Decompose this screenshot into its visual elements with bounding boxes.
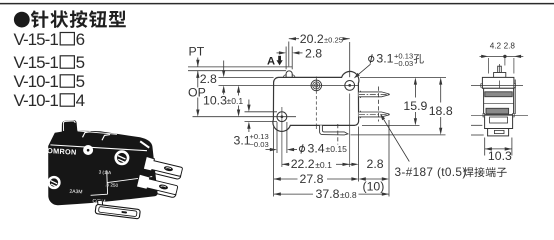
svg-text:±0.15: ±0.15: [326, 144, 348, 154]
dimension 27.8: [274, 172, 359, 186]
section arrow A: [267, 56, 283, 68]
PT dimension: [189, 45, 205, 117]
svg-text:PT: PT: [189, 45, 205, 59]
svg-text:2.8: 2.8: [504, 41, 516, 50]
dimension 15.9: [403, 77, 427, 125]
illustration top edge highlight: [50, 145, 147, 151]
svg-text:3.1: 3.1: [376, 51, 393, 65]
side view terminal bar 1: [485, 92, 512, 97]
dimension 10.3±0.1 (hole line spacing): [203, 85, 243, 116]
dimension 18.8: [429, 77, 453, 134]
svg-text:20.2: 20.2: [300, 32, 324, 46]
svg-text:.5 250: .5 250: [105, 182, 118, 188]
svg-text:−0.03: −0.03: [394, 59, 413, 68]
top-right mounting hole (phi 3.1 hole): [345, 42, 355, 167]
svg-text:6: 6: [76, 30, 85, 49]
illustration pin button highlight: [63, 121, 75, 131]
operating position line (pin tip): [188, 70, 286, 72]
bottom-left mounting hole: [277, 107, 287, 167]
dimension 2.8 (top edge to hole line): [200, 61, 226, 95]
svg-text:−0.03: −0.03: [250, 140, 269, 149]
illustration blade terminal 2: [136, 174, 179, 198]
illustration top back edge highlight: [78, 131, 117, 134]
common terminal (bottom): [320, 125, 348, 134]
svg-text:3.1: 3.1: [234, 133, 251, 147]
svg-text:4.2: 4.2: [490, 41, 502, 50]
phi 3.1 hole label + leader: [354, 51, 424, 78]
svg-text:4: 4: [76, 91, 85, 110]
svg-text:2.8: 2.8: [200, 72, 217, 86]
svg-text:±0.8: ±0.8: [340, 190, 357, 200]
side view dimension 10.3: [485, 138, 512, 164]
dimension (10): [359, 177, 389, 193]
dimension 2.8 (pin width, top): [277, 47, 323, 61]
side view terminal bar 2: [486, 108, 509, 114]
dimension 3.1 +0.13/-0.03 (hole height): [234, 100, 278, 149]
svg-text:(10): (10): [363, 180, 385, 194]
bottom extension verticals: [273, 127, 275, 197]
svg-text:27.8: 27.8: [300, 172, 324, 186]
illustration blade terminal 1: [143, 156, 183, 179]
svg-text:V-10-1: V-10-1: [14, 91, 59, 110]
terminal 1 (NC, upper right): [359, 91, 391, 98]
dimension 20.2±0.25: [289, 32, 350, 46]
side view stub lines: [471, 125, 484, 135]
illustration bottom blade terminal: [98, 200, 103, 205]
svg-text:2A3M: 2A3M: [69, 189, 82, 196]
dimension 22.2±0.1: [282, 157, 350, 171]
svg-text:18.8: 18.8: [429, 104, 453, 118]
svg-text:V-15-1: V-15-1: [14, 53, 59, 72]
section title bullet + 针状按钮型: [14, 10, 126, 28]
page top rule: [0, 3, 554, 5]
svg-text:V-10-1: V-10-1: [14, 72, 59, 91]
model number V-10-1□4: [14, 91, 86, 110]
bottom-left hole centerline horizontal: [193, 116, 297, 118]
terminal hole dashed line (vertical): [378, 87, 380, 122]
svg-text:OMRON: OMRON: [47, 146, 77, 157]
illustration tiny markings: [69, 168, 119, 206]
dimension 2.8 (hole to edge, bottom): [350, 157, 384, 171]
side view centerlines: [471, 85, 523, 87]
OP label: [187, 86, 205, 100]
solder terminal label 3-#187: [380, 114, 506, 180]
illustration top-right corner highlight: [140, 141, 149, 147]
illustration top face gamma marks: [83, 132, 91, 138]
top middle concentric circles: [311, 77, 322, 130]
svg-text:10.3: 10.3: [203, 94, 227, 108]
terminal 2 (NO, lower right): [359, 111, 391, 118]
svg-text:±0.25: ±0.25: [324, 36, 343, 45]
svg-text:10.3: 10.3: [488, 149, 512, 163]
svg-text:15.9: 15.9: [403, 99, 427, 113]
svg-text:2.8: 2.8: [305, 47, 322, 61]
illustration upper-right hole: [116, 152, 128, 164]
svg-text:2.8: 2.8: [367, 157, 384, 171]
model number V-15-1□5: [14, 53, 86, 72]
top hole centerline extension (left): [219, 84, 274, 86]
illustration OMRON logo: [47, 146, 77, 157]
free position line (PT upper reference): [188, 66, 292, 68]
svg-text:±0.1: ±0.1: [227, 96, 244, 106]
svg-text:3.4: 3.4: [308, 141, 325, 155]
main view: switch body outline: [273, 71, 359, 131]
bottom terminal dashed line: [337, 124, 339, 145]
right extension lines: [360, 76, 446, 78]
svg-text:5: 5: [76, 53, 85, 72]
side view dimension 4.2 / 2.8: [480, 41, 524, 73]
svg-text:5: 5: [76, 72, 85, 91]
svg-text:3 (1)A: 3 (1)A: [99, 170, 113, 176]
dimension 37.8±0.8: [274, 187, 389, 201]
svg-text:V-15-1: V-15-1: [14, 30, 59, 49]
svg-text:37.8: 37.8: [316, 187, 340, 201]
pin plunger (main view): [283, 42, 295, 78]
illustration lower-left ear hole: [49, 177, 60, 188]
svg-text:22.2: 22.2: [291, 157, 315, 171]
svg-text:±0.1: ±0.1: [315, 160, 332, 170]
body top edge extension line: [219, 76, 274, 78]
product illustration: micro switch photo-style drawing: [47, 120, 183, 219]
hole centerline horizontal through body: [274, 84, 359, 86]
side view body: [481, 66, 516, 136]
model number V-15-1□6: [14, 30, 86, 49]
illustration body silhouette (top+front+right faces and pin): [48, 120, 157, 205]
illustration white dot: [83, 145, 93, 155]
model number V-10-1□5: [14, 72, 86, 91]
svg-text:A: A: [267, 56, 275, 68]
phi 3.4 dimension (hole width): [266, 122, 348, 155]
illustration seam lines: [91, 170, 153, 195]
svg-text:3-#187 (t0.5): 3-#187 (t0.5): [395, 165, 467, 179]
